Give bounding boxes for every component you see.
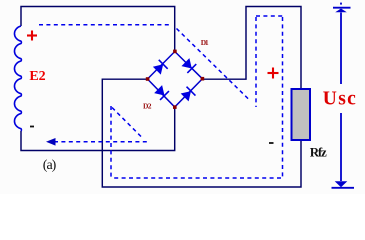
svg-text:Usc: Usc xyxy=(323,88,356,109)
svg-text:Rfz: Rfz xyxy=(310,145,327,160)
svg-text:D1: D1 xyxy=(201,38,209,47)
svg-text:(a): (a) xyxy=(43,158,57,173)
svg-text:D2: D2 xyxy=(143,102,152,111)
svg-text:E2: E2 xyxy=(29,69,45,84)
